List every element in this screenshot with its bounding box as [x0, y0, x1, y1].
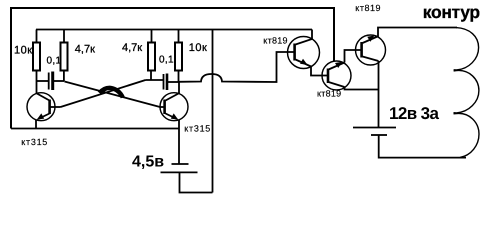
resistor R1 body	[33, 43, 40, 71]
transistor Q1 кт315 circle	[27, 93, 55, 121]
svg-text:0,1: 0,1	[47, 55, 62, 66]
wire T3 emitter diagonal with arrow	[296, 60, 312, 67]
transistor Q2 base bar	[163, 100, 166, 115]
wire R1 bottom lead to node A	[36, 71, 38, 82]
wire supply feed vertical to top rail	[212, 30, 214, 193]
inductor L1 контур coil (three bumps)	[454, 28, 479, 70]
svg-text:0,1: 0,1	[159, 54, 174, 65]
svg-text:кт819: кт819	[263, 36, 287, 46]
svg-text:кт315: кт315	[184, 123, 211, 133]
wire Q1 emitter vertical	[35, 120, 37, 129]
wire R2 bottom lead to node B	[63, 71, 65, 82]
wire battery B1 positive to supply feed	[180, 172, 213, 192]
wire cross-coupling diagonal node C to Q1 base	[61, 80, 146, 107]
wire node D to T3 base (with hop over supply feed)	[179, 52, 294, 82]
wire T4 emitter diagonal (up) with arrow	[329, 63, 345, 70]
capacitor C2 right plate (thick)	[166, 74, 169, 91]
wire T5 collector diagonal	[363, 57, 379, 62]
capacitor C1 right plate (thick)	[51, 72, 54, 91]
svg-text:контур: контур	[423, 2, 480, 22]
svg-text:10к: 10к	[14, 45, 33, 57]
wire cross-coupling diagonal node B to Q2 base	[65, 82, 161, 108]
svg-text:кт819: кт819	[355, 3, 381, 13]
transistor T3 base bar	[293, 44, 296, 61]
transistor T5 base bar	[360, 42, 363, 58]
wire outer border loop (left + top + right drop to T4 collector)	[11, 8, 334, 129]
wire T5 emitter diagonal (up) with arrow	[363, 37, 378, 44]
wire Q1 emitter diagonal with arrow	[38, 114, 50, 120]
transistor Q1 base bar	[48, 100, 51, 115]
wire R3 bottom lead to node C	[150, 71, 152, 81]
wire C1 right plate to node B	[54, 80, 64, 82]
resistor R2 body	[61, 43, 68, 71]
wire T4 collector to battery positive	[345, 87, 379, 90]
wire rail drop to T3 collector	[296, 30, 313, 45]
wire T4 collector diagonal (down)	[329, 82, 345, 87]
wire T5 emitter to coil top	[378, 28, 458, 37]
wire top supply rail	[36, 29, 312, 31]
wire rail stub to R1	[36, 30, 38, 44]
wire C2 right plate to node D	[168, 81, 179, 83]
wire Q2 collector vertical to node D	[178, 82, 180, 94]
svg-text:12в 3а: 12в 3а	[389, 104, 440, 123]
capacitor C1 left plate	[48, 73, 50, 90]
wire Q1 collector diagonal	[37, 94, 50, 101]
battery B2 12в long plate (top)	[353, 127, 396, 129]
node C wire to C2 left plate	[146, 79, 164, 81]
wire T5 collector vertical to battery	[378, 61, 380, 128]
transistor Q2 кт315 circle	[160, 93, 188, 121]
resistor R3 body	[148, 43, 155, 71]
wire rail stub to R3	[151, 30, 153, 44]
transistor T3 кт819 circle	[288, 37, 320, 69]
svg-text:4,7к: 4,7к	[75, 44, 95, 56]
wire Q2 emitter vertical to battery	[178, 120, 180, 164]
wire bottom emitter rail	[11, 128, 179, 130]
inductor L1 bump 2	[454, 70, 479, 112]
svg-text:кт819: кт819	[317, 88, 341, 98]
wire Q2 emitter diagonal with arrow	[166, 114, 178, 120]
wire rail stub to R4	[178, 30, 180, 44]
svg-text:4,7к: 4,7к	[122, 42, 142, 54]
crossover hop bold stroke over wire crossing	[100, 88, 123, 98]
node A wire to C1 left plate	[36, 80, 48, 82]
capacitor C2 left plate	[163, 74, 165, 90]
svg-text:4,5в: 4,5в	[132, 153, 164, 170]
transistor T5 кт819 circle	[356, 35, 386, 65]
wire Q1 collector vertical	[36, 81, 38, 94]
wire T3 emitter to T4 base	[311, 67, 327, 76]
svg-text:10к: 10к	[189, 42, 208, 54]
wire R4 bottom lead to node D	[178, 71, 180, 83]
battery B1 4,5в long plate (bottom)	[161, 171, 198, 173]
transistor T4 base bar	[327, 69, 330, 84]
transistor T4 кт819 circle	[322, 61, 351, 90]
wire rail stub to R2	[63, 30, 65, 44]
svg-text:кт315: кт315	[21, 137, 48, 147]
resistor R4 body	[175, 43, 182, 71]
wire Q2 base lead	[160, 106, 165, 108]
inductor L1 bump 3	[454, 113, 480, 157]
wire battery B2 negative to coil bottom	[379, 135, 466, 158]
wire Q1 base lead	[51, 106, 61, 108]
wire Q2 collector diagonal	[166, 94, 179, 101]
wire T4 emitter to T5 base	[345, 50, 361, 63]
battery B2 12в short plate (bottom)	[371, 134, 387, 136]
battery B1 4,5в short plate (top)	[172, 163, 189, 165]
